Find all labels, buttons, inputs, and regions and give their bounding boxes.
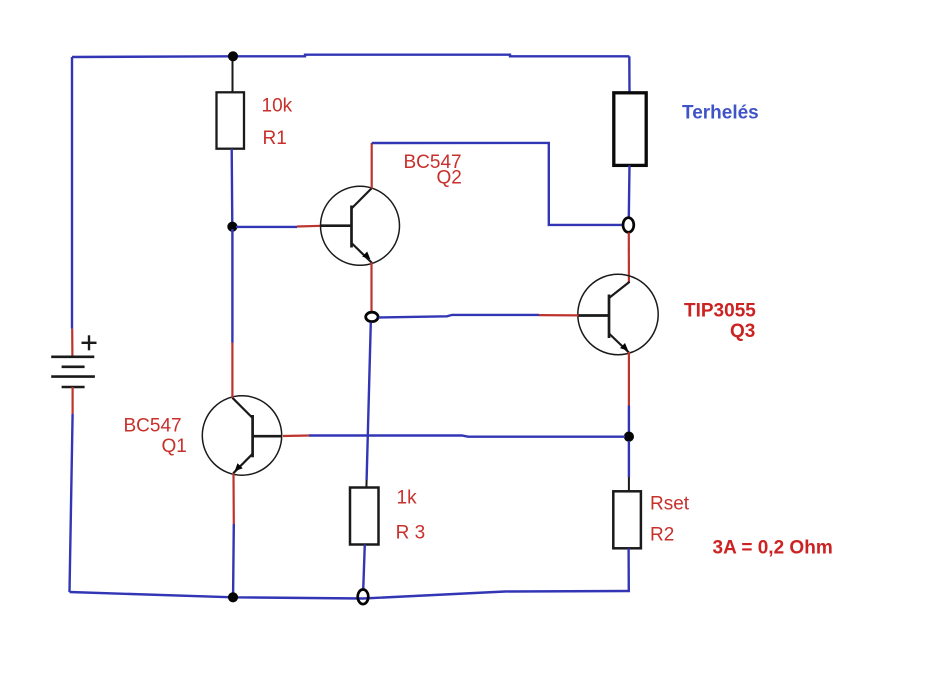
wire: left rail upper (battery + to top rail) — [71, 57, 73, 329]
wire: sense node down to R3 blue — [367, 323, 371, 481]
wire: node D to Q1 base blue — [309, 436, 625, 437]
wire: Q3 emitter to node D blue — [628, 406, 630, 434]
wire: Q1 emitter to ground rail blue — [232, 524, 235, 594]
svg-text:R1: R1 — [263, 128, 287, 149]
wire: left rail lower — [70, 414, 73, 592]
wire: terminal to Q3 collector red — [628, 233, 630, 284]
resistor R3 — [350, 488, 379, 545]
wire: ground bottom rail — [70, 591, 631, 599]
wire: node B to Q2 base blue — [236, 226, 297, 228]
svg-text:R 3: R 3 — [396, 523, 426, 544]
wire: battery negative lead red — [71, 387, 73, 414]
wire: Q2 base lead red — [297, 225, 321, 228]
wire: load bottom to output terminal blue — [628, 166, 631, 218]
wire: Q1 base lead red — [283, 434, 309, 437]
node A junction dot top rail — [228, 51, 238, 61]
wire: Q1 collector to node B blue — [231, 229, 233, 343]
svg-text:Q3: Q3 — [730, 321, 755, 342]
svg-text:Q1: Q1 — [162, 436, 187, 457]
svg-text:Rset: Rset — [650, 494, 690, 515]
wire: Q1 emitter red down — [232, 474, 235, 525]
wire: node D down to R2 blue — [628, 441, 630, 477]
wire: R2 bottom to ground rail blue — [627, 548, 630, 591]
svg-text:1k: 1k — [397, 488, 418, 509]
svg-text:TIP3055: TIP3055 — [684, 300, 756, 321]
wire: Q1 collector red up — [231, 343, 233, 398]
wire: battery positive lead red — [71, 329, 73, 356]
wire: top rail corner down to load — [628, 56, 631, 92]
load resistor Terhelés box — [614, 93, 646, 166]
wire: Q2 collector to load terminal blue — [372, 143, 622, 225]
resistor R2 (Rset) — [613, 491, 641, 548]
transistor Q1 (BC547, mirrored) — [202, 396, 281, 475]
svg-text:3A = 0,2 Ohm: 3A = 0,2 Ohm — [713, 538, 833, 559]
wire: black stub into R3 top — [365, 480, 367, 488]
svg-text:R2: R2 — [650, 525, 674, 546]
svg-text:10k: 10k — [262, 96, 293, 117]
node D junction dot Q3 emitter/R2/Q1 base — [624, 432, 634, 442]
battery plus sign — [82, 335, 97, 350]
wire: Q3 emitter red down — [628, 352, 630, 406]
resistor R1 — [217, 92, 245, 148]
wire: Q2 collector red up — [371, 143, 373, 189]
node E junction dot ground rail — [228, 592, 238, 602]
wire: R3 bottom to ground terminal blue — [363, 545, 365, 591]
node: output terminal open circle — [623, 218, 634, 233]
node: ground terminal open circle — [358, 590, 369, 605]
wire: R1 bottom to node B — [230, 149, 233, 226]
transistor Q2 (BC547) — [321, 186, 400, 265]
wire: black stub top rail to R1 — [232, 57, 234, 93]
svg-text:BC547: BC547 — [124, 415, 182, 436]
wire: black stub into R2 top — [628, 477, 630, 492]
wire: Q3 base lead red — [539, 314, 579, 316]
battery B1 — [51, 357, 95, 387]
wire: Q2 emitter red down to sense node — [370, 263, 372, 312]
node: sense terminal open circle — [366, 312, 378, 321]
wire: V+ top rail — [72, 55, 629, 57]
transistor Q3 (TIP3055) — [578, 274, 658, 354]
wire: sense node to Q3 base blue — [379, 315, 539, 318]
svg-text:Terhelés: Terhelés — [682, 103, 759, 124]
svg-text:Q2: Q2 — [437, 167, 462, 188]
node B junction dot R1/Q1/Q2 — [227, 222, 237, 232]
